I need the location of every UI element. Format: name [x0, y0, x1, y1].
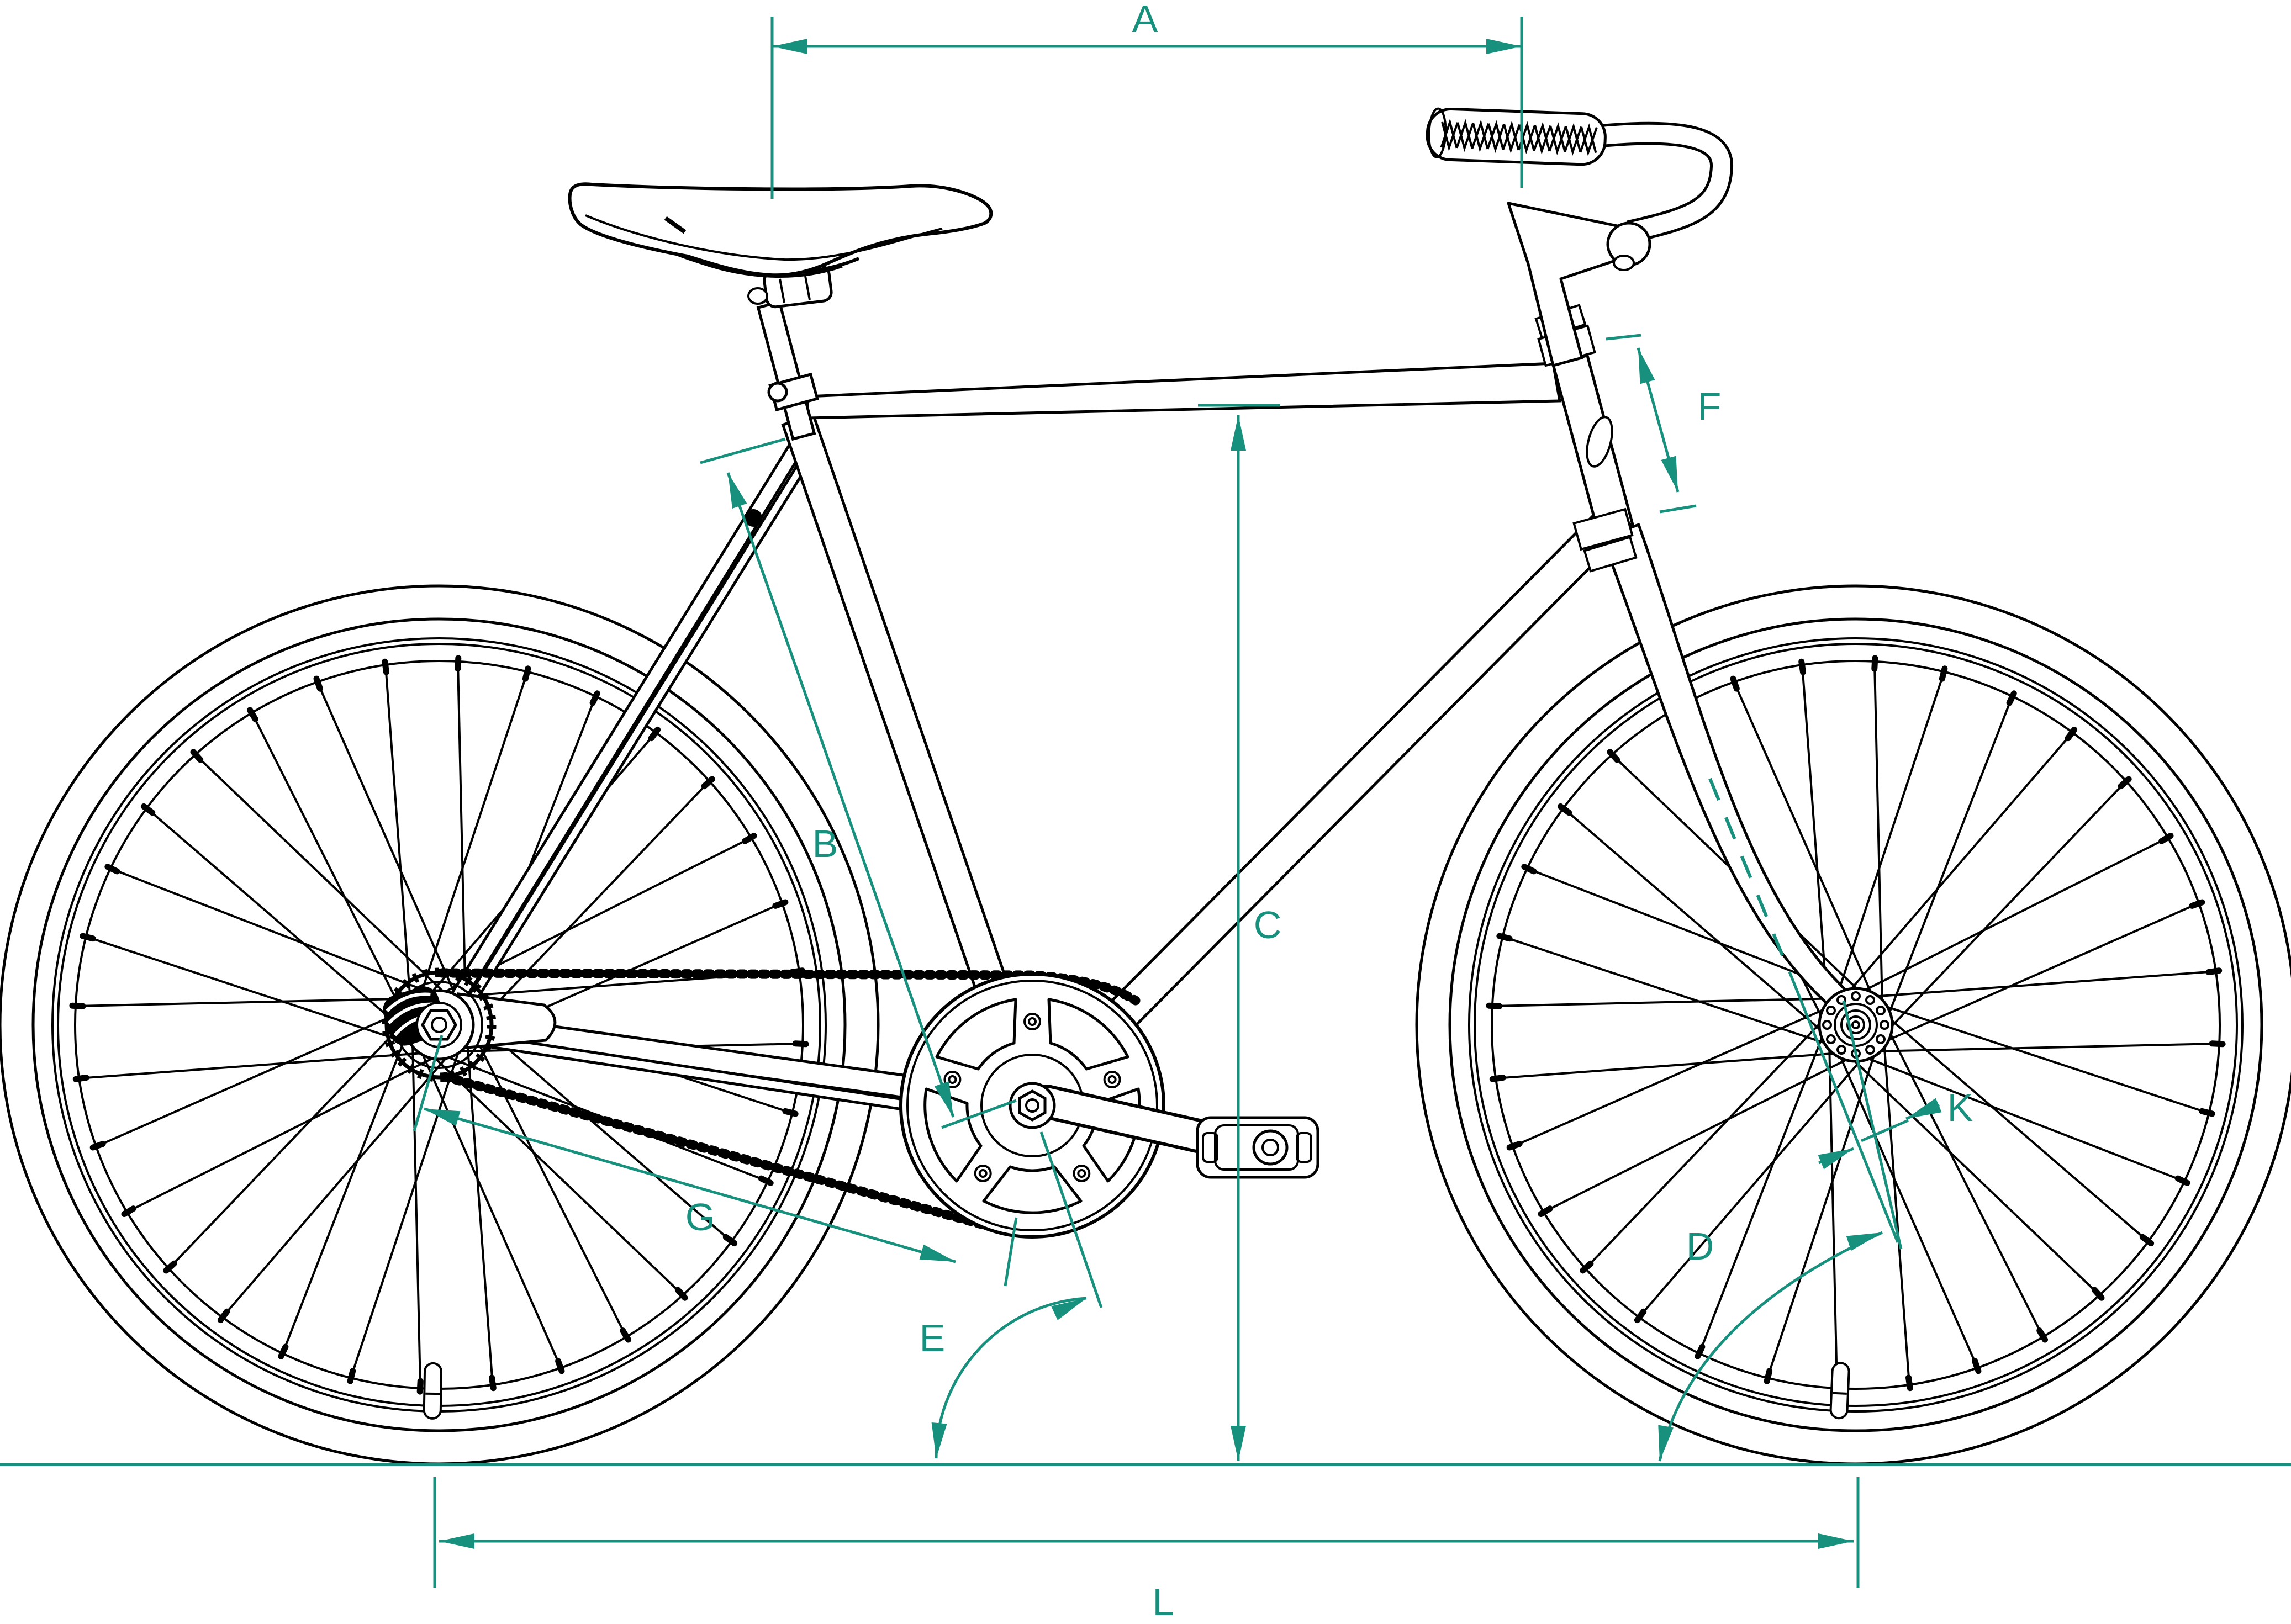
spokes — [1876, 1044, 2215, 1051]
dimension B line — [728, 473, 953, 1117]
dimension F tick bottom — [1660, 506, 1696, 512]
svg-text:F: F — [1698, 385, 1722, 428]
dimension B tick bottom — [942, 1101, 1016, 1128]
seat stay boss dot — [745, 509, 762, 527]
dimension C line — [1237, 415, 1240, 1461]
dimension F tick top — [1606, 335, 1641, 339]
dimension L tick right — [1857, 1477, 1860, 1588]
rear axle nut assembly — [381, 984, 448, 1048]
dimension E arc — [936, 1298, 1086, 1458]
dimension F line — [1638, 348, 1678, 492]
svg-text:E: E — [920, 1316, 946, 1359]
down tube — [1020, 508, 1625, 1118]
dimension C tick top — [1198, 404, 1280, 407]
rear valve stem — [432, 1372, 433, 1410]
saddle clamp — [763, 265, 832, 308]
fork offset line through hub — [1844, 1001, 1901, 1249]
steering axis dashed — [1710, 779, 1785, 962]
chain stay — [446, 1012, 1027, 1114]
rim outer double line — [1469, 638, 2242, 1411]
rear sprocket with chain wrap — [387, 972, 492, 1077]
seat tube axis extension — [1041, 1132, 1101, 1308]
tire inner edge — [1450, 619, 2262, 1431]
dimension K arrow right — [1906, 1105, 1939, 1119]
rim inner edge — [1492, 661, 2220, 1389]
dimension D arc — [1660, 1232, 1882, 1461]
top tube — [807, 363, 1560, 418]
crank arm — [1047, 1102, 1249, 1147]
upper headset spacer rings — [1539, 326, 1595, 366]
chain bottom run — [445, 1077, 991, 1227]
pedal — [1197, 1118, 1318, 1177]
dimension K tick — [1861, 1120, 1908, 1141]
ground line — [0, 1463, 2291, 1466]
handlebar — [1602, 134, 1722, 232]
stem quill and extension — [1508, 203, 1630, 366]
dimension G tick right — [1005, 1218, 1016, 1286]
lower headset rings — [1574, 509, 1633, 549]
chainring cutout 3 — [937, 999, 1016, 1069]
chainring cutout 2 — [925, 1089, 981, 1181]
front hub — [1819, 988, 1892, 1061]
saddle body — [570, 184, 991, 275]
svg-text:B: B — [812, 822, 838, 865]
seat collar clamp — [770, 374, 817, 410]
rim inner edge — [75, 661, 803, 1389]
tire outer edge — [1417, 586, 2291, 1464]
rear hub — [405, 991, 473, 1059]
steering axis solid — [1789, 972, 1898, 1242]
chainring outer — [901, 974, 1164, 1237]
chainring cutout 4 — [1049, 999, 1128, 1069]
spokes — [459, 1044, 799, 1051]
fork crown and blade — [1602, 525, 1856, 1017]
svg-text:A: A — [1132, 0, 1158, 40]
svg-text:G: G — [685, 1195, 715, 1239]
tire outer edge — [0, 586, 878, 1464]
svg-text:C: C — [1254, 903, 1282, 946]
seat stay — [440, 438, 806, 1020]
saddle back mark — [666, 218, 685, 232]
chainring cutout 5 — [1084, 1089, 1139, 1181]
chain top run — [442, 973, 1136, 1001]
saddle seam line — [585, 215, 942, 260]
head tube — [1553, 356, 1633, 534]
seatpost — [758, 302, 815, 439]
chainring cutout 1 — [984, 1167, 1081, 1213]
chainring inner hub circle — [981, 1055, 1083, 1156]
dimension B tick top — [700, 439, 785, 463]
dimension A extension tick left — [771, 17, 774, 199]
seat tube — [783, 415, 1048, 1111]
grip — [1427, 108, 1606, 165]
dimension G line — [424, 1109, 956, 1262]
stem handlebar clamp — [1608, 223, 1650, 265]
dimension G tick left — [414, 1035, 442, 1131]
dimension L tick left — [434, 1477, 436, 1588]
dimension A line — [772, 45, 1522, 48]
dimension K arrow left — [1819, 1149, 1854, 1163]
head tube gusset oval — [1582, 414, 1617, 469]
crank bolt — [1010, 1083, 1054, 1128]
svg-text:L: L — [1153, 1580, 1174, 1623]
rim outer double line — [52, 638, 826, 1411]
tire inner edge — [33, 619, 845, 1431]
saddle rails — [677, 254, 859, 273]
dimension L line — [439, 1540, 1854, 1543]
dimension A extension tick right — [1521, 17, 1523, 188]
front valve stem — [1839, 1371, 1841, 1410]
svg-text:D: D — [1686, 1225, 1714, 1268]
rear dropout — [458, 994, 555, 1048]
svg-text:K: K — [1947, 1086, 1973, 1129]
